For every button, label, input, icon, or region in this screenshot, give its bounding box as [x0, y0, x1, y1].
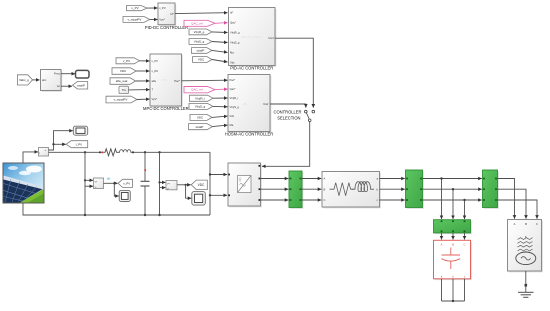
svg-text:v+: v+ — [95, 181, 98, 184]
wire meas2 to meas3 phase A — [423, 178, 482, 180]
wire VDC to HOSM — [212, 116, 228, 117]
node bottom left rail — [84, 214, 86, 216]
wire Uref PID-AC to switch — [275, 38, 313, 107]
svg-text:v_PV: v_PV — [152, 59, 159, 63]
wire Freq to display — [61, 73, 75, 75]
wire PV minus bottom rail — [23, 203, 210, 215]
node inverter minus tap — [209, 194, 211, 196]
wire Id* to PID-AC — [175, 12, 228, 15]
svg-text:HOSM-AC CONTROLLER: HOSM-AC CONTROLLER — [225, 131, 273, 136]
wire breaker to load A — [441, 233, 443, 240]
wire main DC positive — [49, 151, 102, 153]
from tag v_PV — [116, 58, 140, 64]
wire VInjR_i to HOSM — [213, 97, 228, 99]
svg-text:Uref: Uref — [268, 36, 273, 40]
node vdc rail top — [158, 151, 160, 153]
svg-text:Qac*: Qac* — [230, 87, 236, 91]
wire v_PV to PID-DC — [147, 7, 158, 9]
wire filter to meas2 phase B — [380, 188, 405, 190]
svg-text:VInjR_g: VInjR_g — [194, 30, 205, 34]
block PID-AC CONTROLLER — [229, 8, 277, 67]
node v+ tap — [84, 179, 86, 181]
svg-text:VInjR_i: VInjR_i — [195, 96, 205, 100]
node bottom capacitor — [144, 214, 146, 216]
svg-text:PID AC control: PID AC control — [241, 35, 261, 39]
wire load neutral C — [464, 279, 466, 301]
wire meas3 to grid phase B — [498, 189, 527, 219]
wire v_PV to MPC — [140, 60, 150, 62]
wire totalP to HOSM — [213, 125, 228, 127]
wire QAC_ref to HOSM (pink) — [215, 88, 228, 91]
node neutral bus — [452, 300, 454, 302]
wire meas3 to grid phase C — [498, 200, 538, 219]
wire filter to meas2 phase A — [380, 178, 405, 180]
svg-text:v_mpptPV: v_mpptPV — [128, 18, 142, 22]
wire VDC to MPC — [136, 70, 150, 72]
svg-text:VInjS_g: VInjS_g — [230, 105, 240, 109]
svg-text:Ma: Ma — [230, 123, 234, 127]
svg-text:C: C — [324, 198, 326, 202]
wire switch to inverter gate — [262, 122, 310, 167]
wire v_PV meas out — [104, 182, 118, 184]
svg-text:alfa_real: alfa_real — [116, 79, 128, 83]
from tag v_mpptPV — [123, 17, 150, 23]
svg-text:Uref: Uref — [263, 102, 268, 106]
svg-text:VInjS_g: VInjS_g — [194, 40, 205, 44]
wire branch to I_PV tag — [54, 143, 66, 145]
three-phase VI measurement 3 (green) — [483, 170, 499, 209]
wire branch to scope VDC — [186, 185, 192, 198]
svg-text:SELECTION: SELECTION — [277, 116, 300, 121]
from tag VInjR_g — [189, 29, 212, 35]
wire VInjS_g to HOSM — [213, 105, 228, 107]
three-phase breaker (green horizontal) — [434, 220, 472, 235]
dc-link capacitor — [141, 152, 150, 215]
svg-text:C: C — [536, 222, 538, 226]
svg-text:v_mpptPV: v_mpptPV — [114, 98, 128, 102]
wire wt to goto tag — [61, 85, 72, 87]
voltage measurement VDC — [166, 181, 177, 191]
svg-text:totalP: totalP — [196, 125, 204, 129]
from tag VDC — [193, 57, 213, 63]
block MPC-DC CONTROLLER — [150, 54, 183, 107]
right dc rail — [209, 152, 211, 215]
goto tag totalP — [73, 82, 88, 90]
node VDC branch — [185, 184, 187, 186]
wire rail to inverter minus — [210, 194, 227, 196]
svg-text:Vpv*: Vpv* — [152, 97, 158, 101]
svg-text:A: A — [324, 177, 326, 181]
vdc rail — [159, 152, 161, 215]
grid source block — [508, 220, 543, 273]
svg-text:v_PV: v_PV — [123, 59, 130, 63]
node inverter plus tap — [209, 173, 211, 175]
display block Freq — [76, 70, 90, 78]
wire v_mpptPV to MPC — [137, 98, 150, 100]
wire load neutral B — [452, 279, 454, 301]
svg-text:Freq: Freq — [54, 72, 60, 76]
wire inverter phase B — [261, 188, 289, 190]
wire branch to scope v_PV — [114, 183, 118, 196]
node tap C — [463, 199, 465, 201]
ground symbol — [518, 292, 534, 297]
switch input terminal left — [305, 110, 308, 113]
svg-text:Pac*: Pac* — [230, 78, 236, 82]
switch common terminal — [308, 119, 311, 122]
load tap phase A — [441, 179, 443, 220]
node left rail top — [84, 151, 86, 153]
resistor R boost — [104, 149, 118, 156]
wire inverter phase C — [261, 199, 289, 201]
wire meas1 to filter phase B — [302, 188, 321, 190]
from tag VInjS_g — [189, 39, 212, 45]
svg-text:B: B — [452, 242, 454, 246]
wire alfa_real to MPC — [136, 80, 150, 82]
from tag QAC_ref (pink) — [184, 20, 215, 26]
svg-text:Id*: Id* — [230, 11, 233, 15]
three-phase VI measurement 1 (green) — [289, 171, 303, 209]
svg-text:VInjR_i: VInjR_i — [230, 96, 239, 100]
three-phase RLC load (red) — [434, 240, 472, 280]
svg-text:A: A — [514, 222, 516, 226]
node before resistor — [99, 151, 101, 153]
wire meas3 to grid phase A — [498, 179, 515, 219]
wire load neutral A — [441, 279, 443, 301]
svg-text:alfa: alfa — [152, 79, 157, 83]
inverter block VSC — [228, 163, 262, 207]
load tap phase B — [452, 189, 454, 219]
wire inverter phase A — [261, 178, 289, 180]
wire totalP to PID-AC — [212, 50, 228, 52]
constant block TG — [119, 86, 129, 93]
svg-text:MPC: MPC — [162, 78, 170, 82]
block PLL/power meas — [41, 70, 63, 92]
left rail — [84, 152, 86, 215]
svg-text:abc: abc — [42, 78, 47, 82]
wire VDC to PID-AC — [212, 60, 228, 63]
svg-text:· ·Σ· ·: · ·Σ· · — [241, 102, 248, 106]
wire after inductor — [133, 151, 210, 153]
wire v_mpptPV to PID-DC — [150, 19, 158, 21]
svg-text:VDC: VDC — [198, 183, 205, 187]
svg-text:A: A — [441, 242, 443, 246]
red badge on wire — [102, 152, 104, 154]
svg-text:Vdc: Vdc — [230, 60, 235, 64]
block PID-DC CONTROLLER — [158, 3, 176, 26]
wire neutral bus — [442, 300, 465, 302]
svg-text:VInjS_g: VInjS_g — [230, 41, 240, 45]
svg-text:Vdc: Vdc — [230, 114, 235, 118]
PV array image block — [3, 163, 44, 203]
node sensor signal branch — [52, 143, 54, 145]
wire VInjR_g to PID-AC — [212, 31, 228, 34]
block HOSM-AC CONTROLLER — [228, 75, 271, 133]
svg-text:v-: v- — [167, 187, 169, 190]
three-phase VI measurement 2 (green) — [406, 170, 424, 209]
wire sensor signal branch — [49, 131, 73, 150]
svg-text:v_DC: v_DC — [152, 69, 159, 73]
from tag QAC_ref (pink) — [184, 87, 215, 93]
from tag totalP — [189, 124, 213, 130]
svg-text:QAC_ref: QAC_ref — [191, 88, 203, 92]
svg-text:VDC: VDC — [120, 69, 127, 73]
ground port square — [525, 284, 528, 287]
svg-text:VDC: VDC — [197, 116, 204, 120]
wire Pac* MPC to HOSM — [182, 79, 228, 82]
wire meas1 to filter phase C — [302, 199, 321, 201]
svg-text:QAC_ref: QAC_ref — [191, 21, 203, 25]
node capacitor top — [144, 151, 146, 153]
wire meas2 to meas3 phase C — [423, 199, 482, 201]
goto tag v_PV — [118, 179, 133, 187]
from tag v_mpptPV — [106, 96, 137, 103]
inductor L boost — [118, 150, 133, 153]
svg-text:MPC-DC CONTROLLER: MPC-DC CONTROLLER — [143, 106, 189, 111]
wire Uref HOSM to switch — [270, 104, 306, 108]
svg-text:Ma: Ma — [230, 51, 234, 55]
wifi badge v_PV — [107, 178, 110, 180]
goto tag VDC — [191, 180, 207, 190]
from tag VInjR_i — [190, 95, 214, 101]
node after inductor — [132, 151, 134, 153]
svg-text:Qac*: Qac* — [230, 21, 236, 25]
svg-text:VInjS_g: VInjS_g — [195, 105, 206, 109]
svg-text:CONTROLLER: CONTROLLER — [274, 110, 302, 115]
wire rail to VDC v+ — [160, 181, 166, 183]
svg-text:Vabc_g: Vabc_g — [19, 78, 29, 82]
from tag VDC — [190, 114, 212, 120]
goto tag I_PV — [66, 141, 88, 148]
wire Vabc_g to PLL — [33, 79, 40, 81]
wire TG to MPC — [129, 89, 150, 91]
node v_PV branch — [113, 182, 115, 184]
scope current — [73, 126, 87, 135]
node tap A — [440, 177, 442, 179]
wire VInjS_g to PID-AC — [212, 42, 228, 43]
from tag Vabc_g — [18, 75, 33, 85]
from tag VDC — [112, 68, 136, 75]
RL filter block — [322, 172, 381, 209]
scope v_PV — [119, 190, 130, 201]
node VDC tap — [158, 181, 160, 183]
from tag alfa_real — [110, 78, 136, 85]
load tap phase C — [464, 200, 466, 219]
node bottom vdc rail — [158, 214, 160, 216]
svg-text:wt: wt — [57, 84, 60, 88]
svg-text:Pac*: Pac* — [174, 79, 180, 83]
svg-text:Vpv*: Vpv* — [159, 18, 165, 22]
wire breaker to load C — [464, 233, 466, 240]
wire VDC meas out — [177, 184, 191, 186]
voltage measurement v_PV — [94, 178, 104, 189]
wire rail to VDC v- — [160, 187, 166, 189]
svg-text:totalP: totalP — [197, 49, 205, 53]
svg-text:C: C — [464, 242, 466, 246]
svg-text:TG: TG — [122, 88, 127, 92]
from tag v_PV — [127, 6, 148, 11]
svg-text:VInjR_g: VInjR_g — [230, 31, 240, 35]
wire rail to inverter plus — [210, 174, 227, 176]
wire meas2 to meas3 phase B — [423, 188, 482, 190]
svg-text:B: B — [525, 222, 527, 226]
svg-text:v_PV: v_PV — [131, 6, 138, 10]
svg-text:PID-AC CONTROLLER: PID-AC CONTROLLER — [230, 66, 273, 71]
svg-text:v_PV: v_PV — [159, 6, 166, 10]
svg-text:totalP: totalP — [77, 83, 85, 87]
switch input terminal right — [312, 110, 315, 113]
svg-text:I_PV: I_PV — [75, 142, 82, 146]
svg-text:B: B — [324, 187, 326, 191]
wire grid to ground — [525, 271, 527, 292]
from tag totalP — [192, 48, 213, 54]
wire PV plus to current sensor — [23, 152, 38, 163]
wire meas1 to filter phase A — [302, 178, 321, 180]
wire rail to v+ — [85, 179, 93, 181]
current measurement block I_PV — [39, 148, 49, 157]
svg-text:v_PV: v_PV — [123, 182, 130, 186]
wire filter to meas2 phase C — [380, 199, 405, 201]
node tap B — [452, 188, 454, 190]
svg-text:PID-DC CONTROLLER: PID-DC CONTROLLER — [145, 25, 188, 30]
svg-text:VDC: VDC — [198, 58, 205, 62]
from tag VInjS_g — [189, 103, 213, 109]
wire rail to v- — [85, 185, 93, 187]
scope VDC — [192, 192, 206, 206]
wire breaker to load B — [452, 233, 454, 240]
svg-text:v-: v- — [95, 186, 97, 189]
svg-text:v+: v+ — [167, 183, 170, 186]
switch lever — [306, 113, 309, 119]
svg-text:Id*: Id* — [170, 12, 173, 16]
wire QAC_ref to PID-AC (pink) — [215, 22, 228, 25]
